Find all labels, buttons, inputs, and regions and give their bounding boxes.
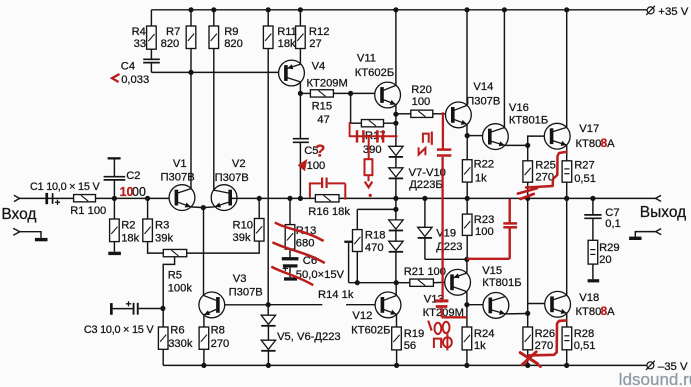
svg-text:R22: R22 xyxy=(474,159,495,171)
svg-text:КТ80: КТ80 xyxy=(576,306,602,318)
svg-text:R23: R23 xyxy=(474,214,495,226)
svg-text:C7: C7 xyxy=(605,207,619,219)
svg-text:0,51: 0,51 xyxy=(574,340,596,352)
svg-text:R8: R8 xyxy=(211,324,225,336)
svg-text:П307В: П307В xyxy=(466,96,500,108)
svg-text:100: 100 xyxy=(307,160,326,172)
svg-text:270: 270 xyxy=(211,338,230,350)
svg-text:39k: 39k xyxy=(233,232,251,244)
svg-text:+35 V: +35 V xyxy=(658,6,688,18)
svg-text:0,51: 0,51 xyxy=(574,173,596,185)
svg-text:V5, V6-Д223: V5, V6-Д223 xyxy=(277,331,341,343)
svg-text:V15: V15 xyxy=(482,265,502,277)
svg-text:0,033: 0,033 xyxy=(121,74,149,86)
svg-text:0,1: 0,1 xyxy=(605,218,621,230)
svg-text:C3 10,0 × 15 V: C3 10,0 × 15 V xyxy=(84,324,154,336)
svg-text:00: 00 xyxy=(132,185,146,199)
svg-text:V1: V1 xyxy=(173,158,187,170)
svg-text:270: 270 xyxy=(535,340,554,352)
svg-text:470: 470 xyxy=(365,242,384,254)
svg-text:R2: R2 xyxy=(121,220,135,232)
svg-text:П307В: П307В xyxy=(215,172,249,184)
svg-text:R19: R19 xyxy=(404,328,425,340)
svg-text:10: 10 xyxy=(120,185,134,199)
svg-text:27: 27 xyxy=(309,38,321,50)
svg-text:R15: R15 xyxy=(312,100,333,112)
svg-text:?: ? xyxy=(315,141,326,161)
svg-text:КТ801Б: КТ801Б xyxy=(482,277,521,289)
svg-text:R29: R29 xyxy=(599,242,620,254)
svg-text:R20: R20 xyxy=(411,84,432,96)
svg-text:18k: 18k xyxy=(278,38,296,50)
svg-text:1k: 1k xyxy=(474,340,486,352)
svg-text:C2: C2 xyxy=(126,170,140,182)
svg-text:R10: R10 xyxy=(233,220,254,232)
svg-text:390: 390 xyxy=(363,144,382,156)
svg-text:R3: R3 xyxy=(155,220,169,232)
svg-text:820: 820 xyxy=(224,38,243,50)
svg-text:КТ602Б: КТ602Б xyxy=(355,67,394,79)
svg-text:270: 270 xyxy=(535,172,554,184)
svg-text:V3: V3 xyxy=(233,273,247,285)
svg-text:V2: V2 xyxy=(232,158,246,170)
svg-text:1k: 1k xyxy=(475,172,487,184)
svg-text:R11: R11 xyxy=(277,26,297,38)
svg-text:КТ209М: КТ209М xyxy=(307,78,348,90)
svg-text:ldsound.ru: ldsound.ru xyxy=(619,370,691,387)
svg-text:Д223: Д223 xyxy=(436,241,462,253)
svg-text:R24: R24 xyxy=(474,328,495,340)
svg-text:100: 100 xyxy=(475,226,494,238)
svg-text:R26: R26 xyxy=(535,328,556,340)
svg-text:R1 100: R1 100 xyxy=(70,205,106,217)
svg-text:V7-V10: V7-V10 xyxy=(409,167,446,179)
svg-text:V11: V11 xyxy=(357,53,376,65)
svg-text:20: 20 xyxy=(599,254,611,266)
svg-text:56: 56 xyxy=(404,340,416,352)
svg-text:R25: R25 xyxy=(535,160,556,172)
svg-text:330k: 330k xyxy=(168,338,193,350)
svg-text:R16 18k: R16 18k xyxy=(308,206,350,218)
svg-text:R21 100: R21 100 xyxy=(404,266,446,278)
svg-text:R7: R7 xyxy=(166,26,180,38)
svg-text:R6: R6 xyxy=(170,324,184,336)
svg-text:R12: R12 xyxy=(309,26,330,38)
svg-text:Выход: Выход xyxy=(640,204,686,221)
svg-text:V4: V4 xyxy=(312,60,326,72)
svg-text:П307В: П307В xyxy=(161,171,195,183)
svg-text:R4: R4 xyxy=(132,26,146,38)
svg-text:R18: R18 xyxy=(365,229,386,241)
svg-text:КТ801Б: КТ801Б xyxy=(509,114,548,126)
svg-text:C1 10,0 × 15 V: C1 10,0 × 15 V xyxy=(30,181,100,193)
svg-text:R9: R9 xyxy=(224,26,238,38)
svg-text:39k: 39k xyxy=(155,232,173,244)
svg-text:33: 33 xyxy=(134,38,146,50)
svg-text:47: 47 xyxy=(317,114,329,126)
svg-text:Д223Б: Д223Б xyxy=(409,179,443,191)
svg-text:А: А xyxy=(607,138,615,150)
svg-text:П307В: П307В xyxy=(229,286,263,298)
svg-text:C4: C4 xyxy=(121,61,135,73)
svg-text:R14 1k: R14 1k xyxy=(318,289,354,301)
svg-text:А: А xyxy=(607,306,615,318)
svg-text:V17: V17 xyxy=(579,123,599,135)
svg-text:V14: V14 xyxy=(473,81,493,93)
svg-text:Вход: Вход xyxy=(1,206,36,223)
svg-text:R27: R27 xyxy=(574,160,595,172)
svg-text:R28: R28 xyxy=(574,328,595,340)
svg-text:V12: V12 xyxy=(352,310,372,322)
svg-text:680: 680 xyxy=(296,238,315,250)
svg-text:820: 820 xyxy=(161,38,180,50)
svg-text:100: 100 xyxy=(412,96,431,108)
svg-text:100k: 100k xyxy=(168,283,193,295)
svg-text:R5: R5 xyxy=(168,269,182,281)
svg-text:V16: V16 xyxy=(509,102,529,114)
svg-text:КТ80: КТ80 xyxy=(576,138,602,150)
svg-text:18k: 18k xyxy=(121,232,139,244)
svg-text:V18: V18 xyxy=(579,292,599,304)
svg-text:V19: V19 xyxy=(436,227,456,239)
svg-text:КТ602Б: КТ602Б xyxy=(351,325,390,337)
